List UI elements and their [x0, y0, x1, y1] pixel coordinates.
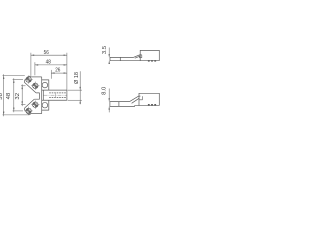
screw hole 3 lower inner	[31, 101, 39, 109]
dim 48v extension top	[13, 79, 23, 81]
barrel right end edge	[66, 90, 68, 100]
dim 58 extension top	[3, 75, 25, 77]
svg-text:Ø 18: Ø 18	[74, 72, 80, 84]
dim 32 line	[21, 84, 23, 106]
dim 32 extension bottom	[21, 104, 26, 106]
dia18 extension bottom	[68, 99, 82, 101]
svg-text:48: 48	[6, 93, 12, 100]
arrow 26 left	[51, 72, 54, 73]
dim 26 extension left	[50, 70, 52, 79]
block detail marks bottom view	[148, 104, 156, 106]
screw hole 1 upper outer	[24, 75, 32, 83]
leaf bottom surface	[110, 105, 135, 108]
dim 56 extension left	[30, 53, 32, 76]
lower wing outline	[24, 99, 34, 114]
svg-text:56: 56	[44, 50, 49, 56]
hinge plate right vertical edge	[41, 77, 43, 114]
leaf divider line	[119, 57, 121, 60]
arrow dia18 bottom	[80, 100, 81, 103]
arrow 3.5 upper	[109, 54, 110, 57]
leaf top surface	[110, 101, 130, 103]
barrel collar line	[42, 90, 44, 100]
arrow 3.5 lower	[109, 61, 110, 64]
arrow 56 left	[31, 55, 34, 56]
leaf bottom surface and block bottom	[110, 60, 159, 62]
arrow 8.0 upper	[109, 98, 110, 101]
leaf left end edge	[109, 57, 111, 60]
arrow 48v bottom	[13, 108, 14, 111]
arrow 48h left	[35, 64, 38, 65]
crank step lower slant	[132, 98, 140, 103]
dim 32 extension top	[21, 85, 26, 87]
pivot circle upper	[42, 82, 48, 88]
frame profile block	[139, 93, 159, 105]
svg-text:48: 48	[46, 60, 51, 66]
barrel hidden line upper	[49, 92, 66, 94]
leaf top surface	[110, 56, 134, 58]
arrow 48h right	[64, 64, 67, 65]
leaf divider line	[118, 102, 120, 107]
dim 48h extension left	[34, 62, 36, 75]
arrow 58 top	[3, 76, 4, 79]
dim 48h line	[35, 64, 67, 66]
arrow 26 right	[64, 72, 67, 73]
arrow 8.0 lower	[109, 106, 110, 109]
dia18 dim line	[79, 71, 81, 104]
svg-text:3.5: 3.5	[102, 46, 108, 54]
pivot circle lower	[42, 102, 48, 108]
arrow 48v top	[13, 80, 14, 83]
knuckle box upper	[42, 80, 49, 90]
svg-text:26: 26	[55, 68, 60, 74]
shared right extension line	[66, 53, 68, 90]
dia18 extension top	[68, 89, 82, 91]
dim 48v extension bottom	[13, 110, 23, 112]
arrow dia18 top	[80, 87, 81, 90]
crank step upper slant	[130, 96, 141, 102]
hinge plate top edge	[31, 76, 42, 78]
barrel top edge	[42, 89, 67, 91]
screw hole 2 upper inner	[31, 82, 39, 90]
knuckle box lower	[42, 100, 49, 110]
dim 8.0 line	[108, 89, 110, 113]
dim 58 line	[3, 74, 5, 116]
svg-text:32: 32	[15, 93, 21, 100]
crank step lower slant	[135, 56, 141, 58]
barrel hidden line lower	[49, 97, 66, 99]
screw hole 4 lower outer	[24, 107, 32, 115]
crank pocket vertical	[139, 55, 141, 58]
barrel bottom edge	[42, 99, 67, 101]
dim 26 line	[51, 72, 67, 74]
barrel center cross tick	[55, 93, 57, 97]
arrow 32 bottom	[22, 101, 23, 104]
block bottom edge	[135, 105, 160, 107]
svg-text:8.0: 8.0	[101, 87, 107, 95]
crank pocket lines	[139, 96, 143, 100]
arrow 32 top	[22, 86, 23, 89]
leaf left end edge	[109, 102, 111, 107]
arrow 56 right	[64, 55, 67, 56]
dim 58 extension bottom	[3, 114, 30, 116]
upper wing outline	[24, 76, 36, 93]
block detail marks top view	[148, 60, 156, 62]
svg-text:58: 58	[0, 93, 4, 100]
dim 48v line	[13, 78, 15, 112]
dim 56 line	[31, 54, 67, 56]
dim 3.5 line	[108, 48, 110, 64]
crank step upper slant	[134, 55, 142, 57]
hinge plate bottom edge	[31, 113, 42, 115]
arrow 58 bottom	[3, 112, 4, 115]
waist notch	[34, 93, 39, 99]
frame profile block	[140, 50, 159, 60]
barrel center line	[44, 94, 67, 96]
